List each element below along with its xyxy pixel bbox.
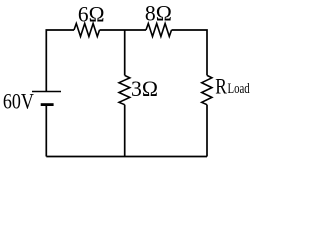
svg-text:8Ω: 8Ω: [145, 1, 172, 26]
resistor 8Ω zigzag: [146, 24, 172, 37]
resistor 6Ω zigzag: [74, 24, 100, 37]
svg-text:60V: 60V: [3, 89, 34, 114]
wire top middle segment (6Ω right lead to 8Ω left lead, through node at middle branch): [100, 29, 147, 31]
label 3Ω: [131, 76, 158, 101]
svg-text:R: R: [215, 75, 227, 99]
label 60V: [3, 89, 34, 114]
svg-text:3Ω: 3Ω: [131, 76, 158, 101]
wire bottom rail: [46, 156, 207, 158]
battery V1 60V (long positive plate): [32, 91, 61, 93]
battery V1 60V (short negative plate): [41, 103, 54, 106]
label 8Ω: [145, 1, 172, 26]
wire middle branch upper (node to 3Ω top lead): [124, 30, 126, 75]
svg-text:Load: Load: [228, 81, 251, 97]
wire top-right corner (8Ω right lead to R_Load top lead): [172, 30, 208, 75]
wire middle branch lower (3Ω bottom lead to bottom rail junction): [124, 105, 126, 157]
label 6Ω: [78, 2, 105, 27]
resistor R_Load vertical zigzag: [202, 75, 212, 104]
wire left vertical upper + top-left corner to 6Ω left lead: [46, 30, 74, 92]
resistor 3Ω vertical zigzag: [119, 75, 130, 104]
wire right vertical lower (R_Load bottom lead to bottom-right corner): [206, 105, 208, 157]
svg-text:6Ω: 6Ω: [78, 2, 105, 27]
label R_Load: [215, 75, 250, 99]
wire left vertical lower (battery negative to bottom-left corner): [45, 105, 47, 157]
